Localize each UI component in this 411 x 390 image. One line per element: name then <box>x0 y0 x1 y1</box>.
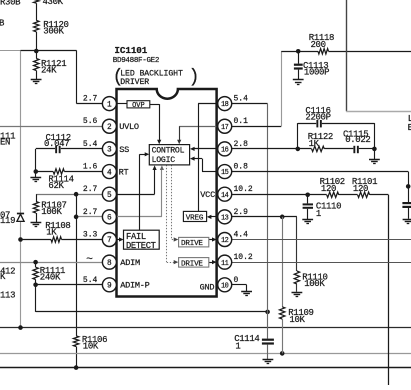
svg-text:5.4: 5.4 <box>234 95 249 104</box>
svg-text:15: 15 <box>221 169 229 177</box>
svg-text:5.6: 5.6 <box>83 117 98 126</box>
svg-text:13: 13 <box>221 214 229 222</box>
svg-text:17: 17 <box>221 124 229 132</box>
svg-text:18: 18 <box>221 101 229 109</box>
svg-text:10K: 10K <box>289 315 305 325</box>
svg-text:RT: RT <box>119 168 129 178</box>
svg-text:BD9488F-GE2: BD9488F-GE2 <box>113 57 160 65</box>
svg-text:VREG: VREG <box>186 215 204 223</box>
svg-text:240K: 240K <box>40 272 61 282</box>
svg-text:430K: 430K <box>43 0 64 7</box>
svg-text:5.4: 5.4 <box>83 276 98 285</box>
svg-text:120: 120 <box>321 184 336 194</box>
svg-text:1: 1 <box>316 209 321 219</box>
svg-text:1K: 1K <box>309 139 320 149</box>
svg-text:DRIVE: DRIVE <box>181 240 203 248</box>
svg-text:EN: EN <box>0 138 10 148</box>
svg-text:6: 6 <box>107 215 112 223</box>
svg-text:10: 10 <box>221 282 229 290</box>
svg-text:R30B: R30B <box>0 0 21 8</box>
svg-text:0.022: 0.022 <box>345 135 370 145</box>
svg-text:14: 14 <box>221 192 229 200</box>
svg-text:24K: 24K <box>41 65 57 75</box>
svg-text:1.6: 1.6 <box>83 163 98 172</box>
svg-text:119: 119 <box>0 216 15 226</box>
svg-text:113: 113 <box>0 291 15 301</box>
svg-text:11: 11 <box>221 260 229 268</box>
svg-text:ADIM: ADIM <box>120 258 140 268</box>
svg-text:1: 1 <box>235 342 240 352</box>
svg-text:E: E <box>408 123 411 133</box>
svg-text:VCC: VCC <box>200 190 215 200</box>
svg-text:2.8: 2.8 <box>234 140 249 149</box>
svg-text:ADIM-P: ADIM-P <box>120 281 149 291</box>
svg-text:DRIVER: DRIVER <box>120 78 149 87</box>
svg-text:300K: 300K <box>43 27 64 37</box>
svg-text:2.7: 2.7 <box>83 208 98 217</box>
svg-text:0.8: 0.8 <box>234 163 249 172</box>
svg-text:0.047: 0.047 <box>44 139 69 149</box>
svg-text:LED BACKLIGHT: LED BACKLIGHT <box>120 69 183 78</box>
svg-text:200: 200 <box>311 40 326 50</box>
svg-text:62K: 62K <box>48 181 64 191</box>
svg-text:2: 2 <box>107 124 112 132</box>
svg-text:3.3: 3.3 <box>83 231 98 240</box>
svg-text:8: 8 <box>107 260 112 268</box>
svg-text:4: 4 <box>107 169 112 177</box>
svg-text:B: B <box>0 19 5 29</box>
svg-text:0: 0 <box>234 276 239 285</box>
svg-text:1: 1 <box>107 101 112 109</box>
svg-text:10.2: 10.2 <box>234 253 253 262</box>
svg-text:9: 9 <box>107 283 112 291</box>
svg-text:CONTROL: CONTROL <box>152 147 185 156</box>
svg-text:LOGIC: LOGIC <box>152 156 176 165</box>
svg-text:10.2: 10.2 <box>234 185 253 194</box>
svg-text:): ) <box>189 68 200 88</box>
svg-text:1K: 1K <box>46 227 57 237</box>
svg-text:10K: 10K <box>83 342 99 352</box>
svg-text:GND: GND <box>200 282 215 292</box>
svg-text:DRIVE: DRIVE <box>181 260 203 268</box>
svg-text:~: ~ <box>86 254 93 266</box>
svg-text:4.4: 4.4 <box>234 231 249 240</box>
svg-text:OVP: OVP <box>132 102 145 110</box>
svg-text:12: 12 <box>221 237 229 245</box>
svg-text:120: 120 <box>353 184 368 194</box>
svg-text:3: 3 <box>107 147 112 155</box>
svg-text:DETECT: DETECT <box>126 241 156 251</box>
svg-text:IC1101: IC1101 <box>114 45 147 56</box>
svg-text:0.1: 0.1 <box>234 117 249 126</box>
svg-text:5.4: 5.4 <box>83 140 98 149</box>
svg-text:UVLO: UVLO <box>119 122 139 132</box>
svg-text:2.7: 2.7 <box>83 95 98 104</box>
svg-text:2.7: 2.7 <box>83 185 98 194</box>
svg-text:5: 5 <box>107 192 112 200</box>
svg-text:SS: SS <box>119 145 129 155</box>
svg-text:16: 16 <box>221 147 229 155</box>
svg-text:1000P: 1000P <box>304 67 329 77</box>
svg-text:2.9: 2.9 <box>234 208 249 217</box>
svg-text:100K: 100K <box>304 279 325 289</box>
svg-text:100K: 100K <box>41 207 62 217</box>
svg-text:2200P: 2200P <box>305 113 330 123</box>
svg-text:7: 7 <box>107 237 112 245</box>
